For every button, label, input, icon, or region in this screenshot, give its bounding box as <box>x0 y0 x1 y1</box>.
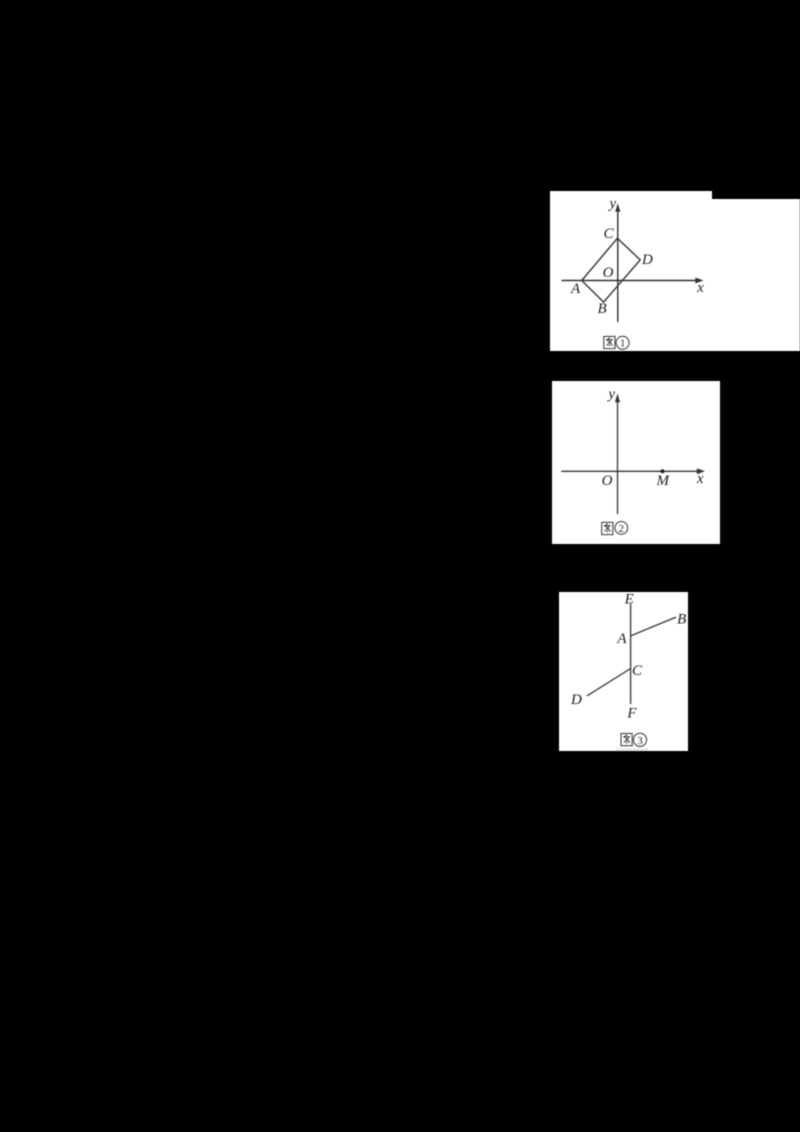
svg-text:C: C <box>603 226 614 242</box>
svg-text:B: B <box>598 301 607 317</box>
svg-text:O: O <box>602 473 613 489</box>
svg-text:x: x <box>696 471 704 487</box>
svg-text:A: A <box>570 281 581 297</box>
svg-text:x: x <box>696 280 704 296</box>
svg-text:M: M <box>656 473 671 489</box>
svg-text:E: E <box>624 591 634 607</box>
svg-text:2: 2 <box>619 523 625 535</box>
svg-text:3: 3 <box>637 735 643 747</box>
svg-text:C: C <box>632 663 643 679</box>
svg-text:y: y <box>608 196 617 212</box>
svg-text:A: A <box>616 631 627 647</box>
svg-text:D: D <box>570 692 582 708</box>
svg-text:D: D <box>641 252 653 268</box>
svg-text:1: 1 <box>620 339 625 350</box>
svg-text:O: O <box>603 265 614 281</box>
svg-text:y: y <box>606 387 615 403</box>
svg-text:B: B <box>677 612 686 628</box>
svg-text:F: F <box>626 705 637 721</box>
